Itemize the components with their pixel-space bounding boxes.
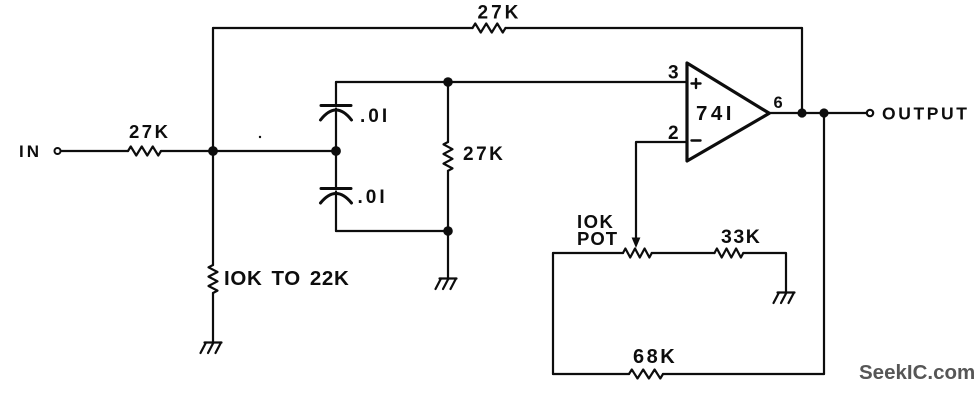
svg-text:27K: 27K — [478, 3, 522, 24]
svg-text:POT: POT — [577, 228, 618, 249]
svg-text:27K: 27K — [129, 121, 170, 142]
svg-text:IN: IN — [19, 142, 42, 161]
svg-text:OUTPUT: OUTPUT — [882, 104, 970, 124]
svg-text:74I: 74I — [696, 102, 735, 125]
svg-text:2: 2 — [668, 123, 679, 144]
svg-text:68K: 68K — [633, 346, 677, 368]
svg-text:6: 6 — [774, 94, 783, 112]
svg-text:.0I: .0I — [360, 106, 390, 127]
svg-text:27K: 27K — [463, 144, 505, 165]
svg-text:3: 3 — [668, 63, 679, 84]
svg-text:IOK TO 22K: IOK TO 22K — [224, 267, 350, 290]
svg-text:SeekIC.com: SeekIC.com — [859, 361, 975, 384]
svg-text:.0I: .0I — [358, 187, 388, 208]
svg-text:33K: 33K — [721, 226, 761, 248]
